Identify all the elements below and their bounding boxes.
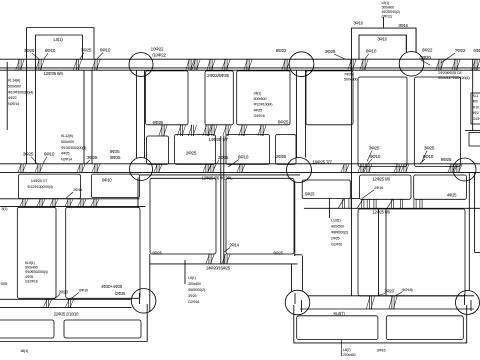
svg-text:G2Φ16: G2Φ16 bbox=[188, 300, 199, 304]
column stub at C4 bbox=[137, 178, 139, 207]
svg-text:6Φ10: 6Φ10 bbox=[100, 48, 111, 53]
column line x35.5 bbox=[35, 35, 37, 164]
svg-text:6Φ1: 6Φ1 bbox=[473, 48, 480, 53]
section circle 2 on top beam bbox=[289, 52, 314, 77]
svg-text:Φ8Φ200(2): Φ8Φ200(2) bbox=[331, 231, 349, 235]
column pair between middle panels b bbox=[223, 136, 225, 264]
svg-text:2Φ25: 2Φ25 bbox=[276, 154, 287, 159]
svg-text:3Φ25: 3Φ25 bbox=[81, 48, 92, 53]
slab panel row1 boxB bbox=[205, 71, 233, 125]
top beam axis line bbox=[0, 69, 480, 71]
svg-text:Φ8Φ200(2): Φ8Φ200(2) bbox=[188, 288, 206, 292]
bottom right panel box R1 bbox=[297, 316, 378, 340]
bottom beam right upper edge bbox=[308, 295, 474, 297]
svg-text:3Φ16: 3Φ16 bbox=[398, 23, 408, 28]
right edge lower line bbox=[465, 130, 480, 132]
svg-text:Φ12Φ100(4): Φ12Φ100(4) bbox=[254, 103, 274, 107]
svg-text:N2Φ14: N2Φ14 bbox=[8, 102, 19, 106]
svg-text:6Φ25: 6Φ25 bbox=[153, 120, 164, 125]
circle8 tick b bbox=[301, 300, 303, 312]
svg-text:3Φ16: 3Φ16 bbox=[377, 348, 387, 353]
slab panel row1 boxA bbox=[146, 71, 188, 125]
tall panel boxE right bbox=[358, 77, 407, 167]
section circle 4 on middle beam bbox=[130, 158, 153, 181]
svg-text:4Φ22: 4Φ22 bbox=[8, 96, 17, 100]
svg-text:(6Φ18): (6Φ18) bbox=[401, 287, 413, 292]
svg-text:G2Φ16: G2Φ16 bbox=[331, 243, 342, 247]
right panel divider a bbox=[378, 209, 380, 296]
section circle 9 bottom bbox=[456, 291, 480, 315]
L0 outer right side bbox=[93, 28, 95, 60]
svg-text:14Φ25 7/7: 14Φ25 7/7 bbox=[208, 137, 228, 142]
column lines below circle 2 bbox=[296, 70, 298, 157]
svg-text:8Φ22: 8Φ22 bbox=[276, 48, 287, 53]
svg-text:2Φ20: 2Φ20 bbox=[58, 290, 68, 295]
svg-text:4Φ25: 4Φ25 bbox=[254, 108, 263, 112]
column lines above circle 3 bbox=[405, 35, 407, 52]
svg-text:6Φ10: 6Φ10 bbox=[45, 48, 56, 53]
svg-text:3Φ16: 3Φ16 bbox=[353, 21, 363, 26]
right edge note box bbox=[471, 93, 480, 124]
slab panel row2 box2 bbox=[175, 135, 216, 165]
svg-text:3Φ25: 3Φ25 bbox=[87, 155, 98, 160]
secondary beam left hatches bbox=[23, 199, 25, 207]
slab panel row2 box3 bbox=[226, 135, 270, 165]
svg-text:Φ12Φ100/200(4): Φ12Φ100/200(4) bbox=[27, 185, 53, 189]
leader for note L10 bbox=[328, 199, 330, 218]
svg-text:L10(1): L10(1) bbox=[331, 219, 341, 223]
right big panel outline bbox=[358, 209, 465, 296]
section circle 7 bottom bbox=[131, 289, 156, 314]
right edge lower ledge bbox=[475, 252, 480, 254]
svg-text:3Φ25: 3Φ25 bbox=[369, 146, 380, 151]
bottom outline left bbox=[0, 304, 147, 342]
svg-text:4Φ25: 4Φ25 bbox=[61, 152, 70, 156]
svg-text:G4Φ16: G4Φ16 bbox=[254, 114, 265, 118]
tall middle panel left bbox=[150, 178, 216, 254]
svg-text:3Φ25: 3Φ25 bbox=[24, 48, 35, 53]
svg-text:6Φ10: 6Φ10 bbox=[102, 178, 112, 183]
section circle 6 on middle beam bbox=[453, 158, 476, 181]
right long column line bbox=[351, 59, 353, 296]
svg-text:500x900: 500x900 bbox=[8, 84, 21, 88]
svg-text:6Φ25: 6Φ25 bbox=[273, 251, 283, 256]
column pair between middle panels a bbox=[220, 136, 222, 264]
svg-text:G12Φ16: G12Φ16 bbox=[25, 279, 38, 283]
svg-text:10Φ22: 10Φ22 bbox=[151, 47, 164, 52]
svg-text:L5(1): L5(1) bbox=[382, 1, 389, 5]
svg-text:KL12(K): KL12(K) bbox=[61, 134, 74, 138]
svg-text:500x400: 500x400 bbox=[382, 6, 395, 10]
svg-text:3Φ25: 3Φ25 bbox=[188, 294, 197, 298]
svg-text:L0(1): L0(1) bbox=[54, 37, 64, 42]
svg-text:12Φ25 6/6: 12Φ25 6/6 bbox=[43, 71, 63, 76]
bottom beam right lower edge bbox=[300, 308, 474, 310]
svg-text:2Φ16: 2Φ16 bbox=[73, 187, 83, 192]
svg-text:2Φ22/6Φ25: 2Φ22/6Φ25 bbox=[207, 73, 229, 78]
bottom right panel box R2 bbox=[386, 316, 463, 340]
right columns pair a bbox=[468, 172, 470, 291]
svg-text:400x900 Φ8Φ150(4): 400x900 Φ8Φ150(4) bbox=[438, 75, 470, 80]
svg-text:8Φ25: 8Φ25 bbox=[110, 149, 120, 154]
svg-text:G4Φ: G4Φ bbox=[473, 117, 480, 121]
intermediate beam hatches bbox=[162, 125, 164, 136]
slab panel row3 boxD1 right bbox=[360, 175, 412, 199]
svg-text:/10Φ22: /10Φ22 bbox=[152, 53, 166, 58]
svg-text:2Φ25: 2Φ25 bbox=[186, 151, 197, 156]
top beam upper edge bbox=[0, 58, 480, 60]
middle beam upper edge bbox=[0, 163, 480, 165]
bottom beam left upper edge bbox=[0, 298, 132, 300]
svg-text:24(1): 24(1) bbox=[254, 92, 263, 96]
svg-text:Φ10Φ100/200(4): Φ10Φ100/200(4) bbox=[61, 146, 87, 150]
L0 inner right side bbox=[82, 35, 84, 59]
svg-text:5Φ25: 5Φ25 bbox=[305, 192, 315, 197]
middle beam column hatches bbox=[21, 164, 23, 173]
svg-text:3Φ25: 3Φ25 bbox=[325, 49, 336, 54]
circle8 tick a bbox=[294, 293, 296, 304]
L0 inner top bbox=[36, 34, 83, 36]
middle lower beam line bbox=[150, 263, 298, 265]
section circle 1 on top beam bbox=[129, 53, 153, 77]
top beam lower edge bbox=[0, 67, 480, 69]
leader for note L9 bbox=[184, 260, 186, 284]
svg-text:6Φ10: 6Φ10 bbox=[366, 49, 377, 54]
column line to circle8 bbox=[302, 256, 304, 291]
right edge vertical bbox=[472, 59, 474, 131]
svg-text:7Φ22: 7Φ22 bbox=[455, 48, 466, 53]
svg-text:8Φ25: 8Φ25 bbox=[441, 157, 452, 162]
bottom beam left lower edge bbox=[0, 307, 132, 309]
section circle 3 on top beam bbox=[399, 52, 424, 77]
svg-text:6Φ10: 6Φ10 bbox=[423, 154, 434, 159]
svg-text:Φ10: Φ10 bbox=[473, 105, 479, 109]
column line x84 bbox=[83, 70, 85, 164]
svg-text:4Φ2: 4Φ2 bbox=[473, 111, 479, 115]
svg-text:200x400: 200x400 bbox=[343, 353, 356, 357]
bottom beam left hatches bbox=[46, 299, 48, 307]
svg-text:6Φ10: 6Φ10 bbox=[370, 154, 381, 159]
svg-text:2Φ14: 2Φ14 bbox=[229, 243, 239, 248]
svg-text:6Φ10: 6Φ10 bbox=[79, 288, 89, 293]
right columns pair b bbox=[474, 172, 476, 252]
svg-text:2Φ25: 2Φ25 bbox=[331, 237, 340, 241]
svg-text:2Φ16: 2Φ16 bbox=[374, 185, 384, 190]
svg-text:3Φ25: 3Φ25 bbox=[424, 146, 435, 151]
svg-text:KL14(A): KL14(A) bbox=[8, 79, 21, 83]
slab panel row2 box4 bbox=[276, 135, 297, 165]
slab panel row1 boxC bbox=[237, 71, 290, 125]
svg-text:KL9(1): KL9(1) bbox=[25, 261, 35, 265]
middle beam lower edge bbox=[0, 171, 480, 173]
tall middle panel right bbox=[226, 178, 294, 254]
column line below circle5 bbox=[294, 182, 296, 256]
circle9 tick b bbox=[470, 300, 472, 311]
svg-text:2Φ25: 2Φ25 bbox=[218, 155, 229, 160]
slab panel row3 boxD2 right bbox=[414, 175, 467, 199]
svg-text:4Φ25: 4Φ25 bbox=[25, 275, 33, 279]
svg-text:/8Φ25: /8Φ25 bbox=[110, 155, 121, 160]
vertical leader top-right bbox=[383, 17, 385, 28]
svg-text:3Φ16: 3Φ16 bbox=[377, 37, 387, 42]
svg-text:12Φ25 6/6: 12Φ25 6/6 bbox=[372, 210, 390, 215]
svg-text:6Φ25: 6Φ25 bbox=[278, 120, 289, 125]
secondary beam right hatches bbox=[342, 199, 344, 208]
svg-text:Φ10Φ100/200(4): Φ10Φ100/200(4) bbox=[8, 90, 34, 94]
svg-text:Φ10Φ50/200(4): Φ10Φ50/200(4) bbox=[25, 270, 48, 274]
svg-text:8(1): 8(1) bbox=[2, 207, 9, 211]
circle9 tick a bbox=[464, 294, 466, 305]
column pair to circle8 a bbox=[291, 264, 293, 291]
panel bottom extension segment bbox=[294, 254, 302, 256]
bottom right outer outline bbox=[294, 305, 467, 343]
right panel divider b bbox=[385, 209, 387, 296]
column line x149 lower segment bbox=[149, 254, 151, 300]
svg-text:/2Φ25: /2Φ25 bbox=[115, 291, 126, 296]
section circle 8 bottom bbox=[285, 290, 310, 315]
column line x26.5 bbox=[26, 28, 28, 164]
section circle 5 on middle beam bbox=[287, 158, 312, 183]
svg-text:24Φ20/16Φ25: 24Φ20/16Φ25 bbox=[206, 266, 231, 271]
top-right opening box outer bbox=[352, 28, 417, 59]
svg-text:6Φ22: 6Φ22 bbox=[422, 48, 433, 53]
svg-text:500x500: 500x500 bbox=[254, 97, 267, 101]
slab opening box L0(1) outer top bbox=[27, 27, 95, 29]
top beam column hatches bbox=[19, 59, 21, 70]
svg-text:6Φ10: 6Φ10 bbox=[238, 155, 249, 160]
secondary beam right lower edge bbox=[304, 207, 480, 209]
svg-text:500x900: 500x900 bbox=[61, 140, 74, 144]
svg-text:(2Φ12): (2Φ12) bbox=[382, 15, 392, 19]
slab panel row3 box1 bbox=[19, 174, 81, 199]
svg-text:14Φ25 7/7: 14Φ25 7/7 bbox=[31, 178, 49, 183]
column line x7 bbox=[6, 62, 8, 130]
slab panel row1 boxD bbox=[306, 71, 353, 125]
svg-text:500x400: 500x400 bbox=[25, 266, 38, 270]
svg-text:3Φ25: 3Φ25 bbox=[23, 152, 34, 157]
bottom beam right hatches bbox=[369, 296, 371, 309]
svg-text:L8(7): L8(7) bbox=[343, 348, 350, 352]
middle beam axis segment bbox=[140, 174, 300, 176]
circle7 tick b bbox=[149, 300, 151, 312]
circle7 tick a bbox=[139, 293, 141, 304]
secondary beam right upper segment bbox=[350, 198, 360, 200]
svg-text:12Φ25 6/6: 12Φ25 6/6 bbox=[372, 177, 390, 182]
tall left panel 1 bbox=[17, 207, 56, 298]
secondary beam left upper edge bbox=[0, 198, 140, 200]
svg-text:KL6(7): KL6(7) bbox=[333, 311, 345, 316]
top-right opening box inner bbox=[359, 35, 406, 59]
svg-text:6Φ10: 6Φ10 bbox=[44, 152, 55, 157]
svg-text:N2Φ14: N2Φ14 bbox=[61, 158, 72, 162]
middle lower beam hatches bbox=[209, 254, 211, 264]
svg-text:6Φ25: 6Φ25 bbox=[152, 251, 162, 256]
tall panel boxF right bbox=[415, 77, 461, 167]
right edge small box bbox=[469, 133, 480, 147]
svg-text:400x500: 400x500 bbox=[331, 225, 344, 229]
secondary beam left lower edge bbox=[0, 206, 145, 208]
small box 5P25 bbox=[302, 180, 350, 199]
leader for L8(7) bbox=[341, 340, 343, 357]
svg-text:22Φ25 2/10/10: 22Φ25 2/10/10 bbox=[54, 312, 79, 317]
svg-text:4Φ20+4Φ25: 4Φ20+4Φ25 bbox=[101, 284, 123, 289]
svg-text:400: 400 bbox=[473, 100, 478, 104]
slab panel row3 box2 bbox=[91, 174, 139, 197]
svg-text:18(1): 18(1) bbox=[20, 348, 29, 353]
svg-text:Φ25: Φ25 bbox=[1, 282, 8, 286]
bottom panel box1 left bbox=[0, 320, 54, 338]
svg-text:4Φ25: 4Φ25 bbox=[447, 193, 457, 198]
slab panel row2 box1 bbox=[147, 136, 169, 164]
tall left panel 2 bbox=[66, 207, 140, 298]
svg-text:4Φ25Φ10(2): 4Φ25Φ10(2) bbox=[382, 10, 400, 14]
column line x92 bbox=[91, 70, 93, 164]
svg-text:300x400: 300x400 bbox=[188, 282, 201, 286]
bottom panel box2 left bbox=[64, 320, 141, 338]
svg-text:L9(1): L9(1) bbox=[188, 276, 197, 280]
svg-text:KL1: KL1 bbox=[473, 94, 479, 98]
column lines below circle 1 bbox=[136, 70, 138, 158]
